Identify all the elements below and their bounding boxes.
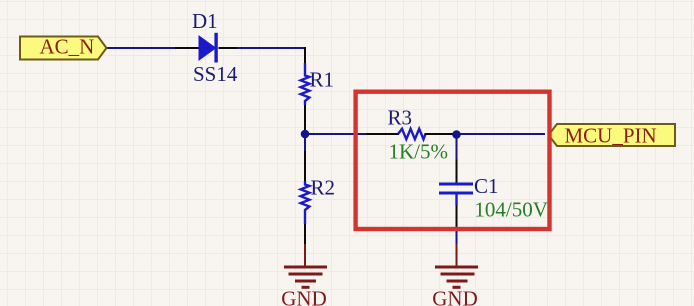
capacitor C1 [439,183,473,206]
resistor R1 [301,63,310,105]
wire: R2 top pin (black) [304,151,306,181]
wire: stem to GND right (dark red) [456,244,458,267]
svg-text:AC_N: AC_N [40,35,95,59]
wire: AC_N label to diode [106,47,176,49]
svg-text:GND: GND [281,287,327,306]
port AC_N [20,35,107,60]
wire: diode to corner [237,47,306,49]
port MCU_PIN [549,124,676,148]
svg-text:D1: D1 [192,9,218,33]
node B junction dot [452,130,461,139]
svg-text:R2: R2 [311,176,336,200]
svg-text:C1: C1 [474,174,499,198]
node A junction dot [301,130,310,139]
svg-text:GND: GND [432,287,478,306]
highlight red box [356,92,550,229]
wire: junction to R3 [305,133,367,135]
wire: diode pin right (black) [219,47,239,49]
wire: junction down to C1 [456,134,458,160]
ground GND right [432,266,478,306]
wire: R3 right pin (black) [425,133,454,135]
wire: diode pin left (black) [175,47,199,49]
wire: R2 bottom pin (black) [304,224,306,245]
diode D1 [199,33,218,63]
wire: stem to GND (dark red) [304,244,306,266]
wire: C1 bottom pin (black) [456,205,458,231]
svg-text:104/50V: 104/50V [474,198,548,222]
wire: junction down to R2 [304,134,306,152]
svg-text:SS14: SS14 [193,62,238,86]
wire: R3 left pin (black) [366,133,399,135]
wire: junction to MCU_PIN label [457,133,546,135]
svg-text:MCU_PIN: MCU_PIN [565,124,657,148]
svg-text:R1: R1 [310,68,335,92]
resistor R2 [301,181,310,224]
svg-text:R3: R3 [388,106,413,130]
wire: R1 bottom pin (black) [304,105,306,132]
wire: below red box (navy) [456,231,458,244]
svg-text:1K/5%: 1K/5% [389,140,449,164]
ground GND left [281,266,327,306]
resistor R3 [398,129,426,139]
wire: C1 top pin (black) [456,160,458,184]
wire: corner down, R1 top pin (black) [304,47,306,63]
